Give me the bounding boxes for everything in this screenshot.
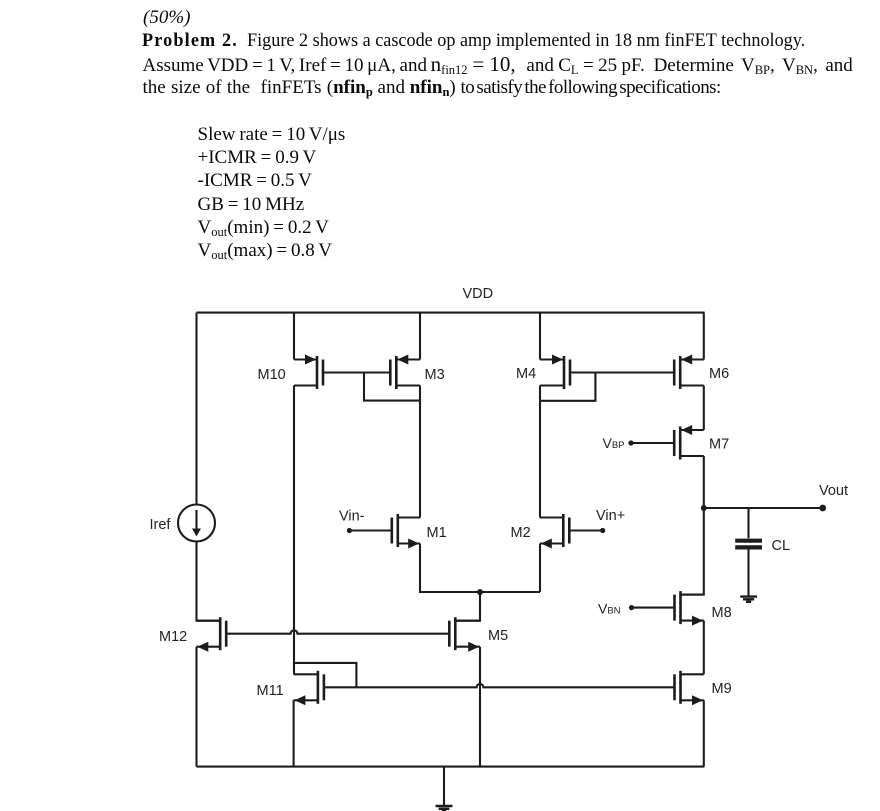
svg-text:Vout: Vout	[819, 483, 848, 499]
transistor M6	[674, 355, 704, 390]
wire Iref to M12 drain	[197, 542, 221, 621]
wire VDD to M4 source	[539, 313, 541, 360]
wire M1 source to tail node	[420, 544, 540, 593]
node VBP	[628, 440, 633, 445]
svg-text:VBN: VBN	[598, 601, 621, 617]
wire M7 drain to output node	[703, 456, 705, 508]
svg-text:M6: M6	[709, 366, 729, 382]
svg-text:M10: M10	[258, 367, 286, 383]
svg-text:M2: M2	[511, 525, 531, 541]
wire output node to CL	[747, 508, 749, 538]
svg-text:M7: M7	[709, 437, 729, 453]
wire tail node to M5 drain	[457, 592, 481, 621]
transistor M4	[540, 355, 570, 390]
wire M12 source to ground rail	[195, 647, 197, 767]
spec line Vout(max)	[198, 241, 332, 260]
wire M9 source to ground rail	[703, 700, 705, 766]
svg-text:VDD: VDD	[463, 286, 494, 302]
wire M10 drain down to M11 drain	[293, 386, 295, 675]
svg-text:M11: M11	[257, 683, 284, 699]
transistor M12	[197, 617, 227, 652]
transistor M10	[294, 355, 323, 390]
wire M2 gate to Vin+ terminal	[570, 529, 602, 531]
power rail VDD	[197, 312, 705, 314]
svg-text:M1: M1	[427, 525, 447, 541]
heading (50%)	[143, 8, 190, 27]
spec line +ICMR	[198, 148, 317, 167]
wire M7 gate to VBP terminal	[631, 442, 674, 444]
node Vout terminal	[819, 505, 826, 512]
wire M4 drain to M2 drain	[539, 386, 541, 518]
spec line Vout(min)	[198, 218, 329, 237]
transistor M9	[675, 671, 704, 706]
wire M3 gate-drain diode connection	[364, 373, 420, 401]
svg-text:M4: M4	[516, 366, 536, 382]
wire VDD to M10 source	[293, 313, 295, 360]
wire VDD to M6 source	[703, 313, 705, 360]
wire M4 gate-drain diode connection	[540, 373, 595, 401]
wire M10 gate to M3 gate	[324, 371, 389, 373]
wire M11 source to ground rail	[293, 700, 295, 766]
svg-text:M8: M8	[712, 605, 732, 621]
transistor M7	[674, 425, 704, 460]
wire M8 gate to VBN terminal	[632, 607, 674, 609]
paragraph line 1	[142, 31, 805, 50]
svg-text:M12: M12	[159, 629, 187, 645]
wire M10 drain to M11 gate jog	[294, 663, 357, 687]
node Vin+	[600, 528, 605, 533]
svg-text:CL: CL	[772, 538, 791, 554]
svg-text:Vin-: Vin-	[339, 509, 365, 525]
svg-text:M3: M3	[425, 367, 445, 383]
spec line slew rate	[198, 125, 346, 144]
capacitor CL	[735, 541, 762, 596]
wire M2 source to tail node	[539, 544, 541, 593]
spec line -ICMR	[198, 171, 312, 190]
svg-text:M5: M5	[488, 628, 508, 644]
wire M5 source to ground rail	[479, 647, 481, 767]
ground symbol below CL	[740, 597, 757, 602]
paragraph line 2	[143, 54, 853, 75]
transistor M2	[540, 514, 569, 549]
transistor M11	[294, 671, 324, 706]
transistor M1	[392, 514, 420, 549]
wire M4 gate to M6 gate	[571, 371, 674, 373]
wire VDD to Iref	[195, 313, 197, 505]
transistor M5	[449, 617, 480, 652]
current source Iref	[178, 505, 215, 542]
svg-text:VBP: VBP	[603, 435, 625, 451]
wire VDD to M3 source	[419, 313, 421, 360]
wire output node to Vout terminal	[704, 507, 823, 509]
wire output node to M8 drain	[682, 508, 704, 595]
svg-text:Vin+: Vin+	[596, 508, 625, 524]
node VBN	[629, 605, 634, 610]
wire M6 drain to M7 source	[703, 386, 705, 431]
transistor M8	[675, 591, 704, 626]
ground rail	[197, 766, 705, 768]
transistor M3	[390, 355, 420, 390]
wire M12 gate to M5 gate with crossover hop	[227, 630, 448, 633]
wire M8 source to M9 drain	[703, 621, 705, 675]
wire M11 gate to M9 gate with crossover hop	[325, 684, 673, 687]
svg-text:Iref: Iref	[150, 517, 172, 533]
wire M1 gate to Vin- terminal	[349, 529, 390, 531]
node output junction	[701, 505, 707, 511]
svg-text:M9: M9	[712, 681, 732, 697]
wire M3 drain to M1 drain	[419, 386, 421, 518]
ground symbol	[443, 767, 445, 806]
spec line GB	[198, 195, 305, 214]
node tail junction	[477, 589, 483, 595]
paragraph line 3	[143, 78, 721, 97]
node Vin-	[347, 528, 352, 533]
